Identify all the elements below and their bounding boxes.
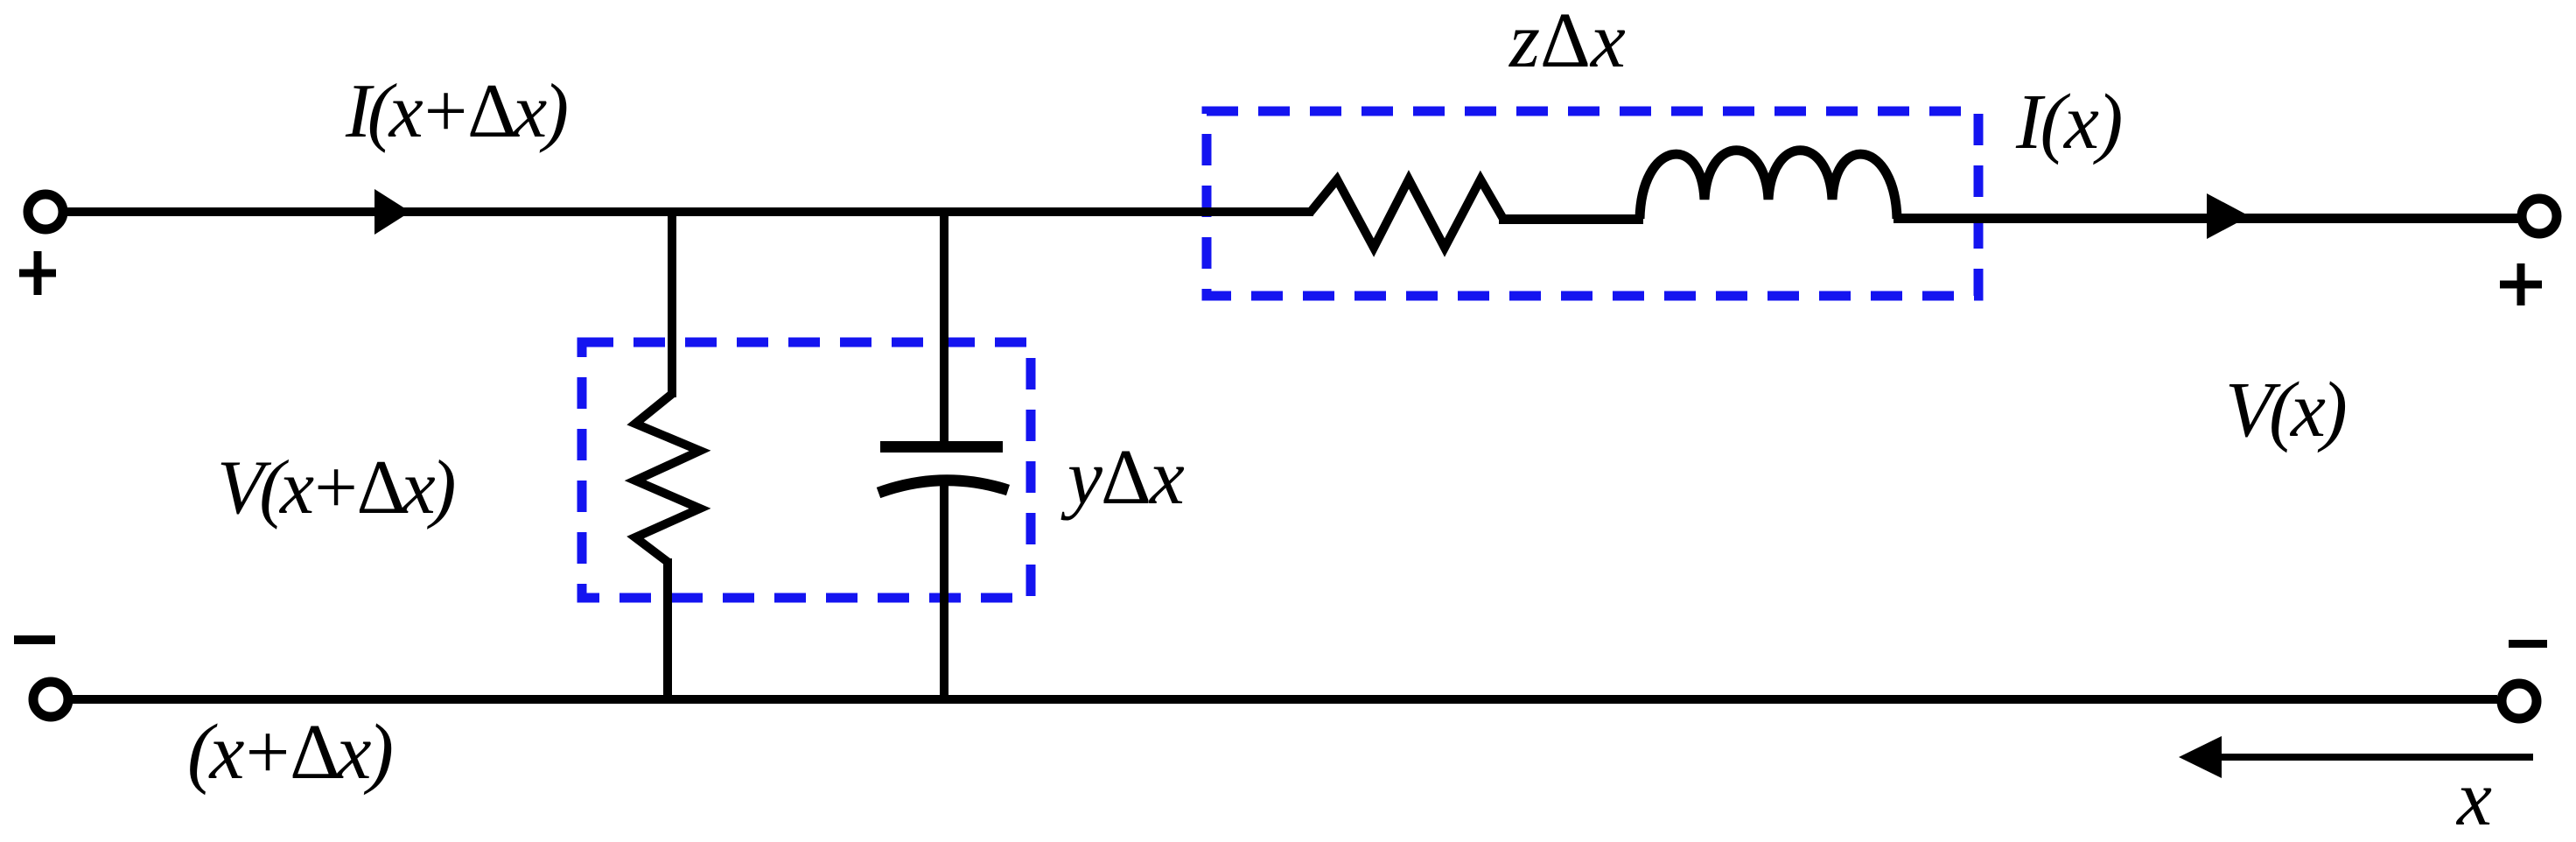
x axis arrowhead xyxy=(2179,736,2222,778)
terminal top-right xyxy=(2522,199,2557,234)
series resistor zigzag xyxy=(1310,179,1503,248)
minus bottom-right xyxy=(2509,640,2547,648)
inductor L xyxy=(1640,151,1897,219)
svg-text:(x+Δx): (x+Δx) xyxy=(187,709,392,796)
wire shunt resistor top stub xyxy=(668,212,676,397)
wire bottom rail xyxy=(73,695,2497,704)
minus bottom-left xyxy=(14,635,55,644)
svg-text:I(x): I(x) xyxy=(2015,79,2121,165)
plus top-right xyxy=(2500,263,2542,305)
series impedance box zdx xyxy=(1207,111,1978,296)
wire shunt resistor bottom stub xyxy=(663,558,672,700)
wire top rail right xyxy=(1893,214,2519,223)
svg-text:x: x xyxy=(2455,755,2492,842)
svg-text:yΔx: yΔx xyxy=(1060,434,1185,521)
capacitor C bottom curved plate xyxy=(878,481,1008,493)
terminal bottom-left xyxy=(33,682,68,717)
wire top rail left xyxy=(67,207,1313,216)
svg-text:V(x): V(x) xyxy=(2225,367,2346,453)
svg-text:V(x+Δx): V(x+Δx) xyxy=(217,446,454,530)
wire capacitor top stub xyxy=(940,212,948,446)
terminal top-left xyxy=(28,194,63,229)
current arrow I(x) xyxy=(2207,193,2250,239)
terminal bottom-right xyxy=(2502,684,2537,719)
wire capacitor bottom stub xyxy=(940,483,948,700)
current arrow I(x+dx) xyxy=(374,189,410,235)
resistor R shunt zigzag xyxy=(635,394,700,562)
shunt admittance box ydx xyxy=(582,342,1031,598)
svg-text:zΔx: zΔx xyxy=(1508,0,1626,84)
capacitor C top plate xyxy=(880,441,1003,453)
svg-text:I(x+Δx): I(x+Δx) xyxy=(345,69,567,154)
x axis arrow line xyxy=(2222,754,2533,761)
plus top-left xyxy=(19,251,56,295)
wire R to L xyxy=(1499,214,1643,224)
